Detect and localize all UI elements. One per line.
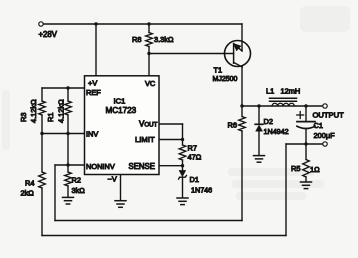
svg-text:MC1723: MC1723	[106, 106, 137, 115]
svg-text:200μF: 200μF	[314, 131, 336, 140]
svg-text:SENSE: SENSE	[129, 162, 155, 171]
svg-text:L1: L1	[266, 87, 274, 96]
svg-text:4.12kΩ: 4.12kΩ	[29, 99, 38, 123]
svg-text:R2: R2	[72, 176, 81, 185]
svg-text:R5: R5	[291, 164, 300, 173]
svg-text:REF: REF	[86, 88, 101, 97]
svg-text:R3: R3	[19, 113, 28, 122]
svg-text:1N746: 1N746	[191, 186, 212, 195]
svg-text:INV: INV	[86, 129, 98, 138]
svg-text:D2: D2	[264, 117, 273, 126]
svg-text:R7: R7	[188, 144, 197, 153]
svg-text:VC: VC	[145, 79, 156, 88]
svg-text:3.3kΩ: 3.3kΩ	[154, 35, 174, 44]
svg-text:OUTPUT: OUTPUT	[313, 111, 345, 120]
svg-text:C1: C1	[314, 121, 323, 130]
svg-text:NONINV: NONINV	[86, 162, 115, 171]
svg-text:+V: +V	[88, 79, 97, 88]
svg-text:D1: D1	[190, 175, 199, 184]
svg-text:2kΩ: 2kΩ	[21, 189, 35, 198]
svg-text:T1: T1	[214, 66, 223, 75]
svg-text:R1: R1	[46, 113, 55, 122]
svg-text:R8: R8	[132, 35, 141, 44]
svg-text:R6: R6	[228, 121, 237, 130]
svg-text:IC1: IC1	[114, 97, 126, 106]
svg-text:47Ω: 47Ω	[188, 153, 202, 162]
svg-text:+28V: +28V	[39, 30, 58, 39]
svg-text:1Ω: 1Ω	[310, 165, 320, 174]
svg-text:4.12kΩ: 4.12kΩ	[57, 99, 66, 123]
svg-text:−V: −V	[108, 175, 117, 184]
svg-text:12mH: 12mH	[281, 87, 301, 96]
svg-text:VOUT: VOUT	[139, 120, 158, 129]
svg-text:1N4942: 1N4942	[264, 127, 289, 136]
svg-text:LIMIT: LIMIT	[135, 135, 155, 144]
svg-text:3kΩ: 3kΩ	[72, 186, 86, 195]
svg-text:R4: R4	[25, 179, 34, 188]
svg-text:MJ2500: MJ2500	[213, 76, 238, 83]
